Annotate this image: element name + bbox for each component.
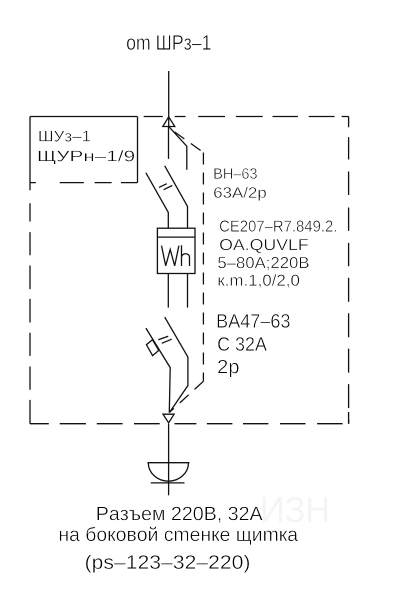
label box divider: right vertical line (137, 117, 139, 183)
switch QS (ВН-63): pole 2 blade (165, 166, 188, 228)
panel ЩУРн dashed enclosure: left edge (29, 117, 31, 424)
wire: outgoing drop to socket (168, 424, 170, 496)
switch QS (ВН-63): pole 1 blade (146, 173, 168, 228)
switch QS linkage tick 2 (164, 186, 173, 190)
label: 2р (218, 360, 239, 378)
panel ЩУРн dashed enclosure: right edge (348, 117, 350, 424)
label: на боковой стенке щитка (60, 527, 298, 545)
label: (ps-123-32-220) (86, 555, 249, 573)
label: ШУз-1 (39, 131, 90, 142)
label: 63А/2р (214, 187, 266, 201)
label box divider: bottom dashed line (30, 182, 138, 184)
meter Wh: text h glyph (182, 245, 190, 266)
meter Wh: body (157, 228, 195, 273)
switch QS linkage tick 1 (159, 184, 167, 188)
label: к.т.1,0/2,0 (218, 274, 299, 288)
socket XS: lower crossbar (151, 482, 185, 484)
socket XS: half circle (148, 463, 188, 482)
breaker QF (ВА47-63): pole 2 blade (165, 317, 188, 413)
meter Wh: header line (157, 236, 195, 238)
connector: bottom plug triangle (163, 414, 174, 423)
dashed mechanical link: vertical run (202, 153, 204, 382)
label: СЕ207-R7.849.2. (220, 220, 336, 231)
connector: top plug triangle (163, 117, 175, 127)
socket XS: top bar (147, 462, 189, 464)
label: С 32А (218, 337, 267, 351)
label: Разъем 220В, 32А (97, 507, 262, 523)
node: от ШРз-1 (incoming feeder label) (127, 35, 211, 50)
panel ЩУРн dashed enclosure: top edge (30, 116, 349, 118)
wire: incoming feeder drop (168, 71, 170, 127)
breaker QF linkage tick 2 (162, 339, 172, 343)
label: ВА47-63 (218, 314, 290, 328)
wire: pole 2 fan-out from top connector (169, 127, 187, 170)
wire: Wh to breaker pole 2 (187, 274, 189, 308)
breaker QF (ВА47-63): pole 1 blade (146, 328, 170, 412)
label: ОА.QUVLF (220, 239, 308, 253)
wire: pole 1 drop from top connector (168, 127, 170, 159)
label: 5-80А;220В (218, 257, 309, 270)
label: ЩУРн-1/9 (39, 150, 135, 164)
breaker QF linkage tick 1 (158, 336, 168, 340)
meter Wh: text W glyph (162, 246, 179, 266)
dashed mechanical link: bottom diagonal (170, 381, 204, 412)
panel ЩУРн dashed enclosure: bottom edge (30, 412, 349, 424)
wire: Wh to breaker pole 1 (167, 274, 169, 308)
breaker QF: release rectangle (146, 340, 158, 356)
label: ВН-63 (214, 168, 257, 179)
watermark ghost (263, 497, 327, 523)
dashed mechanical link: top diagonal (171, 129, 204, 153)
